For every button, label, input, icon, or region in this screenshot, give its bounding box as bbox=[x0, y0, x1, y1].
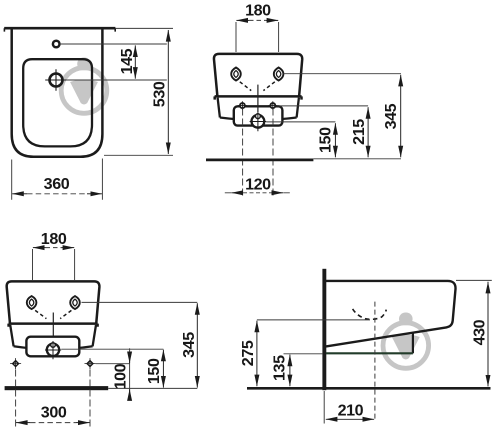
svg-text:345: 345 bbox=[180, 332, 198, 358]
svg-text:345: 345 bbox=[382, 103, 400, 129]
svg-text:530: 530 bbox=[151, 81, 169, 107]
svg-text:215: 215 bbox=[350, 119, 368, 145]
svg-text:430: 430 bbox=[471, 319, 489, 345]
svg-text:180: 180 bbox=[41, 230, 67, 248]
svg-text:120: 120 bbox=[245, 176, 271, 194]
svg-text:145: 145 bbox=[118, 48, 136, 74]
svg-text:300: 300 bbox=[41, 404, 67, 422]
svg-text:360: 360 bbox=[44, 175, 70, 193]
svg-text:180: 180 bbox=[245, 1, 271, 19]
svg-text:150: 150 bbox=[145, 358, 163, 384]
svg-text:135: 135 bbox=[271, 355, 289, 381]
svg-text:210: 210 bbox=[338, 401, 364, 419]
svg-text:275: 275 bbox=[239, 340, 257, 366]
svg-text:150: 150 bbox=[316, 127, 334, 153]
svg-text:100: 100 bbox=[111, 363, 129, 389]
